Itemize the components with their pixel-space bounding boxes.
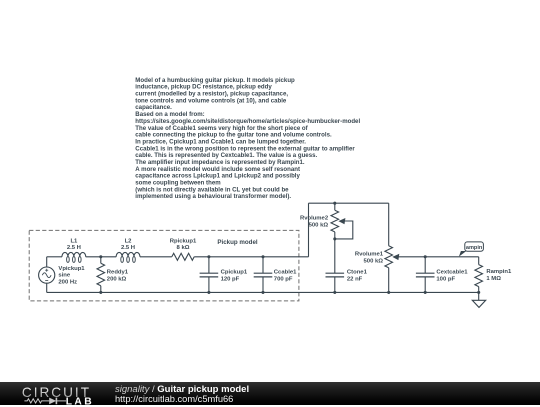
svg-text:L2: L2 (125, 239, 133, 245)
potentiometer Rvolume1 (385, 203, 399, 292)
svg-text:500 kΩ: 500 kΩ (309, 223, 329, 229)
svg-text:1 MΩ: 1 MΩ (486, 276, 501, 282)
svg-text:Rvolume2: Rvolume2 (300, 216, 329, 222)
junction Cextcable1 top node (424, 255, 427, 258)
svg-text:sine: sine (58, 273, 71, 279)
wire Vpickup1 bottom lead (46, 283, 48, 292)
wire Vpickup1 top lead (46, 257, 48, 267)
svg-text:Vpickup1: Vpickup1 (58, 266, 85, 272)
svg-text:500 kΩ: 500 kΩ (364, 258, 384, 264)
svg-text:Rvolume1: Rvolume1 (355, 251, 384, 257)
CircuitLab logo (16, 383, 126, 407)
svg-text:2.5 H: 2.5 H (67, 245, 81, 251)
wire Rvolume1 wiper to Rampin1 corner (398, 256, 479, 258)
resistor Rpickup1 (172, 253, 194, 260)
svg-text:700 pF: 700 pF (274, 276, 293, 282)
capacitor Ccable1 (254, 257, 273, 293)
svg-text:200 kΩ: 200 kΩ (107, 276, 127, 282)
wire bottom rail (47, 291, 479, 293)
svg-text:Ctone1: Ctone1 (347, 270, 368, 276)
junction Ccable1 top node (261, 255, 264, 258)
junction node A top (99, 255, 102, 258)
pickup model dashed boundary box (29, 230, 299, 301)
svg-text:Ccable1: Ccable1 (274, 270, 297, 276)
capacitor Ctone1 (326, 273, 345, 292)
label L1 2.5 H (67, 239, 81, 252)
label Ctone1 22 nF (347, 270, 368, 283)
svg-text:22 nF: 22 nF (347, 276, 363, 282)
label Cextcable1 100 pF (436, 270, 468, 283)
wire Rvolume2 wiper jog (335, 221, 353, 239)
capacitor Cextcable1 (416, 257, 435, 293)
potentiometer Rvolume2 (331, 203, 345, 239)
resistor Rampin1 (475, 257, 483, 293)
label Rvolume1 500 kOhm (355, 251, 384, 264)
svg-text:implemented using a behavioura: implemented using a behavioural transfor… (135, 193, 291, 200)
voltage source Vpickup1 (39, 267, 55, 283)
wire Vpickup1 top to L1 (47, 256, 62, 258)
wire riser to top rail (308, 203, 310, 257)
wire L2 to Rpickup1 (140, 256, 172, 258)
wire top rail (309, 202, 389, 204)
junction Cpickup1 top node (207, 255, 210, 258)
inductor L1 (62, 252, 86, 262)
label Rvolume2 500 kOhm (300, 216, 329, 229)
inductor L2 (116, 252, 140, 262)
wire L1 to node A (86, 256, 117, 258)
label Ccable1 700 pF (274, 270, 297, 283)
capacitor Cpickup1 (200, 257, 219, 293)
svg-text:Rampin1: Rampin1 (486, 269, 512, 275)
junction Rvolume1 bottom node (387, 291, 390, 294)
node ampin flag (459, 242, 484, 257)
junction node A bottom (99, 291, 102, 294)
svg-text:Cextcable1: Cextcable1 (436, 270, 468, 276)
junction Cpickup1 bottom node (207, 291, 210, 294)
junction Ctone1 bottom node (333, 291, 336, 294)
svg-text:Reddy1: Reddy1 (107, 269, 129, 275)
ground (472, 292, 485, 307)
junction Rvolume2 top node (333, 202, 336, 205)
svg-text:100 pF: 100 pF (436, 276, 455, 282)
label Rampin1 1 MOhm (486, 269, 512, 282)
wire Rpickup1 to corner (194, 256, 308, 258)
label Rpickup1 8 kOhm (170, 239, 197, 252)
svg-text:Cpickup1: Cpickup1 (221, 270, 248, 276)
svg-text:200 Hz: 200 Hz (58, 279, 77, 285)
footer bar (0, 382, 540, 406)
svg-text:ampin: ampin (466, 245, 483, 251)
label Cpickup1 120 pF (221, 270, 248, 283)
junction Cextcable1 bottom node (424, 291, 427, 294)
wire Rvolume2 to Ctone1 (334, 239, 336, 273)
junction Rvolume2 bottom node (333, 237, 336, 240)
svg-text:120 pF: 120 pF (221, 276, 240, 282)
footer title text (115, 385, 249, 405)
svg-text:Rpickup1: Rpickup1 (170, 239, 197, 245)
label Vpickup1 sine 200 Hz (58, 266, 85, 285)
label Reddy1 200 kOhm (107, 269, 129, 282)
label L2 2.5 H (121, 239, 135, 252)
junction Ccable1 bottom node (261, 291, 264, 294)
description text block (135, 77, 360, 200)
junction ground node (477, 291, 480, 294)
svg-text:2.5 H: 2.5 H (121, 245, 135, 251)
svg-text:Pickup model: Pickup model (217, 239, 258, 246)
svg-text:8 kΩ: 8 kΩ (177, 245, 190, 251)
resistor Reddy1 (97, 257, 105, 293)
svg-text:L1: L1 (70, 239, 78, 245)
